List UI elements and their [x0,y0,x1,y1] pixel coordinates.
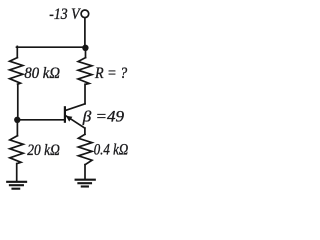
transistor Q1 collector lead [66,104,85,111]
wire 0.4k to ground right [84,165,86,180]
wire supply drop [84,18,86,47]
terminal supply -13V [81,10,89,18]
svg-text:-13 V: -13 V [49,7,81,24]
wire 20k to ground left [16,164,18,182]
resistor R unknown zigzag [78,58,92,85]
ground left bar1 [7,181,26,183]
transistor Q1 emitter lead [66,116,85,128]
ground right bar3 [82,185,88,187]
svg-text:0.4 kΩ: 0.4 kΩ [94,142,128,159]
ground right bar1 [76,179,95,181]
svg-text:R = ?: R = ? [94,65,128,82]
resistor 0.4k zigzag [78,134,92,164]
wire base [17,119,64,121]
wire node A to R [85,48,87,58]
resistor 20k zigzag [10,136,23,164]
node B junction dot [14,117,20,123]
wire R to collector [84,84,86,104]
ground left bar3 [13,188,20,190]
resistor 80k zigzag [10,58,23,85]
node A junction dot [82,45,88,51]
wire node B to 20k [16,120,18,136]
wire top rail [17,46,86,48]
svg-text:20 kΩ: 20 kΩ [27,142,60,159]
svg-text:80 kΩ: 80 kΩ [24,66,60,82]
wire emitter to 0.4k [84,128,86,134]
transistor Q1 emitter arrowhead [66,116,73,122]
wire 80k to node B [17,84,19,120]
ground right bar2 [78,182,91,184]
ground left bar2 [10,184,23,186]
wire left rail upper [16,46,18,57]
svg-text:β =49: β =49 [82,107,124,125]
transistor Q1 base bar [64,107,66,121]
